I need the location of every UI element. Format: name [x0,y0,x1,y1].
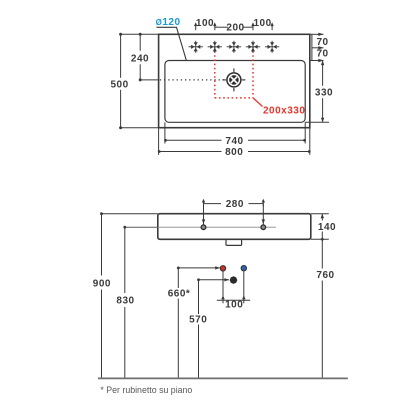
svg-text:200: 200 [226,23,244,34]
svg-text:280: 280 [226,199,244,210]
svg-text:200x330: 200x330 [263,105,305,116]
svg-text:100: 100 [225,300,243,311]
svg-text:760: 760 [316,270,334,281]
svg-text:100: 100 [254,18,272,29]
svg-text:830: 830 [116,295,134,306]
svg-text:140: 140 [318,222,336,233]
svg-text:740: 740 [225,136,243,147]
svg-text:330: 330 [315,88,333,99]
svg-text:70: 70 [316,37,328,48]
svg-text:* Per rubinetto su piano: * Per rubinetto su piano [100,385,192,395]
svg-text:900: 900 [93,278,111,289]
svg-text:800: 800 [225,147,243,158]
svg-text:570: 570 [189,314,207,325]
svg-text:100: 100 [196,18,214,29]
svg-text:240: 240 [131,54,149,65]
svg-text:70: 70 [316,48,328,59]
svg-text:Ø120: Ø120 [156,17,181,28]
svg-text:660*: 660* [168,289,191,300]
svg-text:500: 500 [111,79,129,90]
